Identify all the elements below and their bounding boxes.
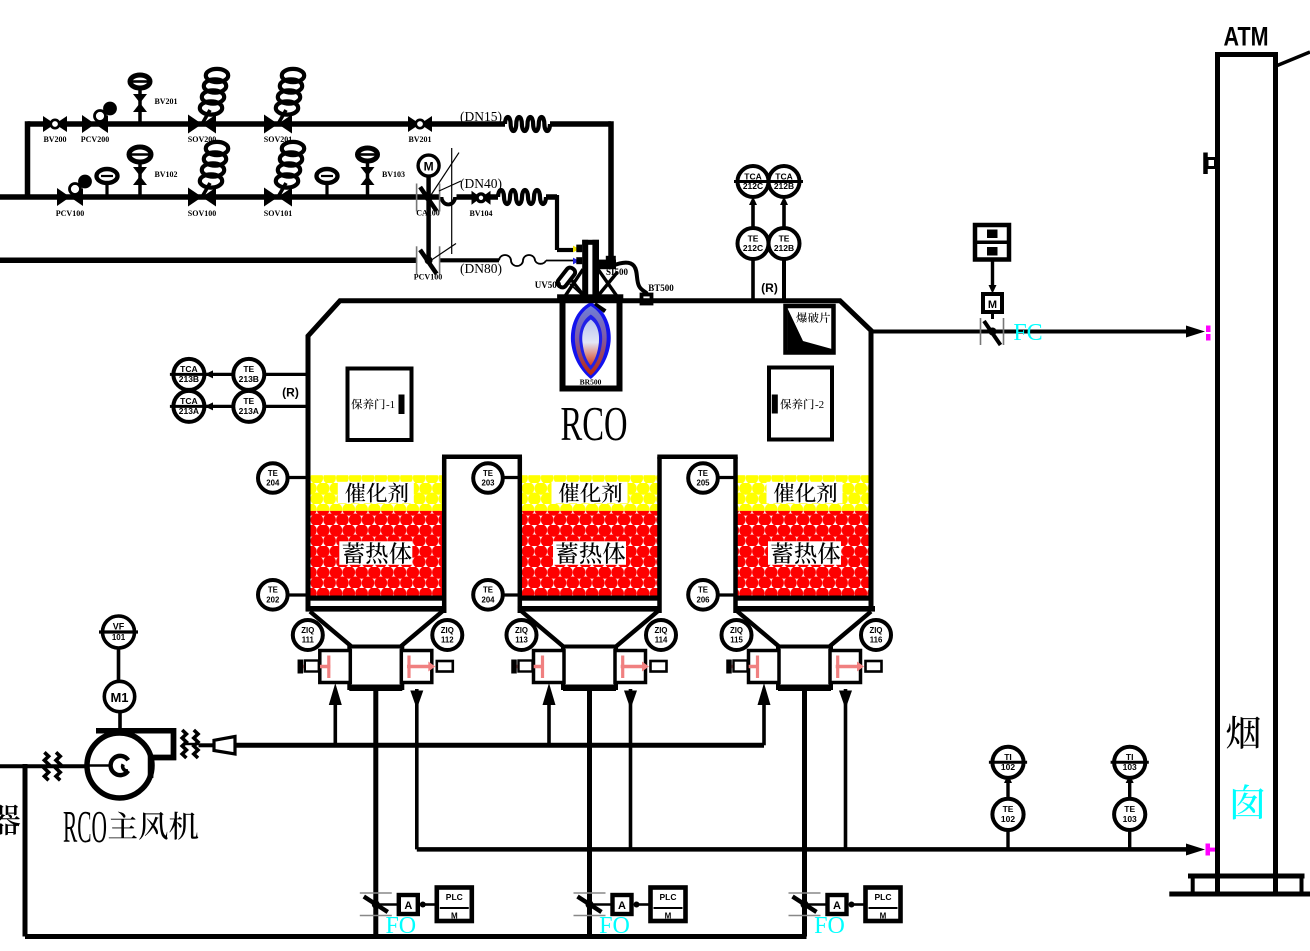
instrument ZIQ 112 xyxy=(432,620,462,650)
left damper rod (pink) xyxy=(298,665,331,669)
svg-text:ATM: ATM xyxy=(1224,22,1269,52)
TE 204 xyxy=(273,476,310,479)
self-regulating valve PCV200 xyxy=(82,115,95,133)
outlet reducer xyxy=(199,743,215,747)
svg-text:202: 202 xyxy=(266,595,280,604)
label 蓄热体 xyxy=(339,541,412,565)
svg-text:111: 111 xyxy=(302,636,315,645)
trap dip xyxy=(442,197,456,205)
X bracing left xyxy=(565,269,584,297)
instrument ZIQ 114 xyxy=(646,620,676,650)
svg-text:M: M xyxy=(988,299,997,311)
svg-text:BV104: BV104 xyxy=(469,209,492,218)
svg-text:PCV100: PCV100 xyxy=(56,209,84,218)
svg-text:TE: TE xyxy=(698,469,708,478)
instrument TE 206 xyxy=(688,580,718,610)
hand valve BV103 xyxy=(366,163,370,197)
filter char 器 (clipped) xyxy=(0,805,20,836)
instrument TE 212B xyxy=(769,228,800,259)
hopper xyxy=(518,606,662,612)
svg-text:UV500: UV500 xyxy=(535,280,562,290)
self-regulating valve PCV100 xyxy=(57,188,70,206)
FO damper valve xyxy=(574,892,606,894)
svg-text:TCA: TCA xyxy=(775,171,792,181)
svg-text:101: 101 xyxy=(112,633,126,642)
svg-text:PLC: PLC xyxy=(446,892,463,902)
svg-text:FC: FC xyxy=(1013,320,1042,346)
instrument TI 103 xyxy=(1114,747,1145,778)
left TE/TCA instrument rows xyxy=(205,373,307,376)
svg-text:PCV100: PCV100 xyxy=(414,273,442,282)
purge center pipe xyxy=(373,691,378,937)
ball valve BV201 xyxy=(408,116,420,132)
svg-text:(R): (R) xyxy=(282,386,299,400)
ball valve BV200 xyxy=(43,116,55,132)
svg-text:-2: -2 xyxy=(815,399,824,411)
fan inlet line xyxy=(0,764,88,768)
svg-text:FO: FO xyxy=(814,913,845,939)
svg-text:212C: 212C xyxy=(743,243,763,253)
svg-text:103: 103 xyxy=(1123,762,1137,772)
svg-text:TE: TE xyxy=(483,469,493,478)
svg-text:CA100: CA100 xyxy=(416,209,440,218)
UV scanner UV500 xyxy=(556,266,577,289)
svg-text:TE: TE xyxy=(1003,804,1014,814)
svg-text:TE: TE xyxy=(268,586,278,595)
instrument TE 103 xyxy=(1114,799,1145,830)
囱 (cyan) xyxy=(1233,784,1264,819)
svg-text:203: 203 xyxy=(481,479,495,488)
flexible joint xyxy=(44,752,48,780)
svg-text:PLC: PLC xyxy=(660,892,677,902)
svg-text:TCA: TCA xyxy=(180,396,197,406)
blue air arrow xyxy=(573,258,580,265)
hopper xyxy=(306,606,446,612)
svg-text:TE: TE xyxy=(698,586,708,595)
svg-text:TE: TE xyxy=(268,469,278,478)
X bracing right xyxy=(598,269,618,297)
instrument TE 204 xyxy=(473,580,503,610)
svg-text:BV201: BV201 xyxy=(154,97,177,106)
svg-text:SI500: SI500 xyxy=(606,267,629,277)
svg-text:206: 206 xyxy=(696,595,710,604)
svg-text:SOV100: SOV100 xyxy=(188,209,216,218)
ball valve BV104 xyxy=(472,191,482,205)
solenoid valve SOV100 xyxy=(200,174,222,187)
solenoid valve SOV201 xyxy=(276,101,298,114)
wire DN40 drop/run to burner xyxy=(555,195,559,250)
svg-text:213A: 213A xyxy=(239,406,259,416)
instrument ZIQ 111 xyxy=(293,620,323,650)
heat storage bed xyxy=(520,511,660,596)
right damper rod (pink) xyxy=(621,665,644,669)
svg-text:A: A xyxy=(833,900,841,912)
instrument TCA 212B xyxy=(769,166,800,197)
gauge xyxy=(325,183,328,197)
PLC box xyxy=(866,888,901,922)
stack nozzle xyxy=(1203,153,1208,175)
svg-text:M: M xyxy=(665,912,672,921)
label 催化剂 xyxy=(552,482,628,504)
exhaust collection line xyxy=(417,847,1186,852)
svg-text:TE: TE xyxy=(243,364,254,374)
svg-text:BT500: BT500 xyxy=(648,283,674,293)
svg-text:BV103: BV103 xyxy=(382,170,405,179)
inlet line w/ up arrow xyxy=(762,702,766,745)
maintenance door 2 xyxy=(769,368,832,440)
svg-text:TCA: TCA xyxy=(180,364,197,374)
instrument TE 203 xyxy=(473,463,503,493)
FC exhaust branch to stack xyxy=(873,330,1186,334)
instrument TI 102 xyxy=(992,747,1023,778)
guy wire xyxy=(1276,52,1310,66)
inter-chamber channel caps xyxy=(442,454,522,459)
left damper rod (pink) xyxy=(727,665,760,669)
svg-text:A: A xyxy=(618,900,626,912)
svg-text:M: M xyxy=(451,912,458,921)
instrument TE 213A xyxy=(233,391,264,422)
svg-text:BV200: BV200 xyxy=(43,135,66,144)
svg-text:M1: M1 xyxy=(110,690,128,705)
motor M1 xyxy=(118,712,122,730)
svg-text:(DN80): (DN80) xyxy=(460,261,502,276)
svg-text:212C: 212C xyxy=(743,181,763,191)
svg-text:TE: TE xyxy=(779,233,790,243)
top TE/TCA instrument cluster xyxy=(751,258,755,302)
svg-text:204: 204 xyxy=(481,595,495,604)
svg-text:ZIQ: ZIQ xyxy=(515,626,528,635)
chamber at 375.8: catalyst bed xyxy=(308,475,444,511)
gauge xyxy=(105,183,108,197)
svg-text:TI: TI xyxy=(1004,752,1012,762)
left damper rod (pink) xyxy=(512,665,545,669)
svg-text:TE: TE xyxy=(483,586,493,595)
svg-text:BV201: BV201 xyxy=(408,135,431,144)
outlet line w/ down arrow xyxy=(415,689,419,849)
svg-text:RCO: RCO xyxy=(561,396,628,451)
svg-text:ZIQ: ZIQ xyxy=(301,626,314,635)
svg-text:213B: 213B xyxy=(179,374,199,384)
svg-text:204: 204 xyxy=(266,479,280,488)
svg-text:TI: TI xyxy=(1126,752,1134,762)
outlet line w/ down arrow xyxy=(844,689,848,849)
right damper rod (pink) xyxy=(836,665,859,669)
FC actuator M xyxy=(983,294,1002,312)
instrument TCA 213A xyxy=(173,391,204,422)
wire left riser xyxy=(25,121,31,197)
svg-text:A: A xyxy=(404,900,412,912)
motor valve CA100 xyxy=(426,175,431,260)
discharge valve block xyxy=(563,647,616,689)
instrument TE 212C xyxy=(738,228,769,259)
yellow gas arrow xyxy=(573,246,580,253)
chamber at 804.5: catalyst bed xyxy=(736,475,874,511)
pilot arm xyxy=(599,260,616,270)
burner nozzle stubs xyxy=(576,245,582,253)
flex hose DN40 xyxy=(498,190,546,204)
discharge valve block xyxy=(349,647,402,689)
svg-text:M: M xyxy=(880,912,887,921)
hopper xyxy=(734,606,876,612)
purge center pipe xyxy=(587,691,592,937)
outlet line w/ down arrow xyxy=(629,689,633,849)
svg-text:TCA: TCA xyxy=(744,171,761,181)
wire pipe2 DN40 header xyxy=(0,194,440,200)
svg-text:TE: TE xyxy=(748,233,759,243)
烟 xyxy=(1227,716,1260,749)
chamber at 589.5: catalyst bed xyxy=(520,475,660,511)
channel walls xyxy=(442,457,447,613)
flexible joint xyxy=(182,730,186,758)
svg-text:(R): (R) xyxy=(761,281,778,295)
inlet line w/ up arrow xyxy=(547,702,551,745)
inlet line w/ up arrow xyxy=(333,702,337,745)
RCO main fan xyxy=(96,731,174,778)
solenoid valve SOV101 xyxy=(276,174,298,187)
rupture disc 爆破片 xyxy=(786,306,834,353)
label 催化剂 xyxy=(338,482,414,504)
svg-text:116: 116 xyxy=(870,636,883,645)
svg-text:PCV200: PCV200 xyxy=(81,135,109,144)
svg-text:102: 102 xyxy=(1001,814,1015,824)
FC control box xyxy=(975,225,1009,260)
svg-text:(DN40): (DN40) xyxy=(460,176,502,191)
solenoid valve SOV200 xyxy=(200,101,222,114)
svg-text:212B: 212B xyxy=(774,243,794,253)
instrument ZIQ 115 xyxy=(722,620,752,650)
wire pipe3 DN80 xyxy=(0,258,417,264)
flex hose DN15 xyxy=(505,117,550,131)
bottom purge line xyxy=(25,934,807,939)
svg-text:M: M xyxy=(424,160,434,174)
svg-text:ZIQ: ZIQ xyxy=(730,626,743,635)
instrument TE 205 xyxy=(688,463,718,493)
svg-text:RCO: RCO xyxy=(63,802,107,852)
instrument TE 202 xyxy=(258,580,288,610)
svg-text:ZIQ: ZIQ xyxy=(441,626,454,635)
svg-text:TE: TE xyxy=(243,396,254,406)
svg-text:(DN15): (DN15) xyxy=(460,109,502,124)
PLC box xyxy=(437,888,472,922)
label 蓄热体 xyxy=(553,541,626,565)
heat storage bed xyxy=(736,511,874,596)
hand valve BV102 xyxy=(138,163,142,197)
FC damper xyxy=(980,318,982,345)
burner flange xyxy=(557,294,623,303)
instrument ZIQ 113 xyxy=(507,620,537,650)
hand valve BV201 xyxy=(138,90,142,124)
svg-text:SOV101: SOV101 xyxy=(264,209,292,218)
burner box xyxy=(563,302,620,389)
svg-text:112: 112 xyxy=(441,636,454,645)
label 催化剂 xyxy=(767,482,843,504)
PLC box xyxy=(651,888,686,922)
stack base xyxy=(1188,874,1305,879)
wire pipe1 DN15 header xyxy=(28,121,506,127)
svg-text:205: 205 xyxy=(696,479,710,488)
svg-text:TE: TE xyxy=(1124,804,1135,814)
heat storage bed xyxy=(308,511,444,596)
svg-text:213A: 213A xyxy=(179,406,199,416)
TE 203 xyxy=(488,476,522,479)
instrument TCA 213B xyxy=(173,359,204,390)
flame xyxy=(571,302,611,379)
impeller swirl xyxy=(111,756,129,775)
instrument TE 213B xyxy=(233,359,264,390)
svg-text:113: 113 xyxy=(515,636,528,645)
chimney 烟囱 xyxy=(1215,55,1220,892)
RCO vessel shell xyxy=(308,301,871,612)
exhaust line arrow to stack xyxy=(1186,844,1205,856)
svg-text:213B: 213B xyxy=(239,374,259,384)
svg-text:BR500: BR500 xyxy=(580,378,602,387)
svg-text:114: 114 xyxy=(655,636,668,645)
svg-text:VF: VF xyxy=(113,622,125,632)
purge center pipe xyxy=(802,691,807,937)
right damper rod (pink) xyxy=(407,665,430,669)
svg-text:ZIQ: ZIQ xyxy=(870,626,883,635)
svg-text:212B: 212B xyxy=(774,181,794,191)
FO damper valve xyxy=(360,892,392,894)
flame cable BT500 xyxy=(612,263,647,295)
svg-text:102: 102 xyxy=(1001,762,1015,772)
speed instrument xyxy=(117,648,121,682)
svg-text:ZIQ: ZIQ xyxy=(655,626,668,635)
svg-text:103: 103 xyxy=(1123,814,1137,824)
instrument TCA 212C xyxy=(738,166,769,197)
svg-text:-1: -1 xyxy=(386,399,395,411)
svg-text:BV102: BV102 xyxy=(154,170,177,179)
discharge valve block xyxy=(778,647,831,689)
instrument TE 102 xyxy=(992,799,1023,830)
control valve PCV100 (DN80) xyxy=(416,246,418,274)
vessel side walls re-stroke xyxy=(306,336,311,612)
main supply line from fan xyxy=(235,743,764,748)
svg-text:115: 115 xyxy=(730,636,743,645)
instrument TE 204 xyxy=(258,463,288,493)
maintenance door 1 xyxy=(348,369,412,441)
label 蓄热体 xyxy=(768,541,841,565)
left drain riser xyxy=(23,764,28,937)
instrument ZIQ 116 xyxy=(861,620,891,650)
wire DN15 drop to burner xyxy=(608,121,614,258)
burner mast xyxy=(582,240,588,296)
FO damper valve xyxy=(789,892,821,894)
flex hose DN80 xyxy=(499,255,546,266)
stack gas instruments xyxy=(1006,830,1009,849)
svg-text:PLC: PLC xyxy=(875,892,892,902)
TE 205 xyxy=(703,476,738,479)
